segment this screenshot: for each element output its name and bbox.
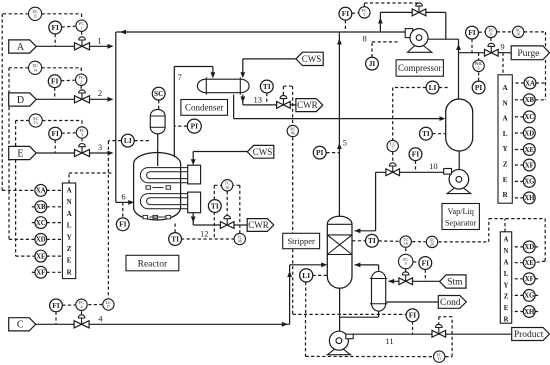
- wire dashed TC10 to CW valve: [226, 191, 228, 215]
- wire dashed LC7 to stream10 valve: [392, 152, 394, 164]
- wire dashed FI-FC feed A: [62, 25, 76, 28]
- svg-text:8: 8: [490, 33, 492, 37]
- wire dashed TC08 rail up: [239, 185, 241, 233]
- wire CWS supply to condenser: [243, 58, 296, 60]
- svg-text:E: E: [67, 257, 72, 265]
- svg-text:Purge: Purge: [517, 49, 539, 59]
- svg-text:XB: XB: [525, 97, 535, 104]
- svg-text:XH: XH: [524, 195, 535, 202]
- wire dashed bottom rail horizontal: [293, 313, 407, 315]
- arrow stream 4 corner: [282, 322, 288, 327]
- svg-text:FI: FI: [52, 301, 60, 310]
- instrument FI stream 6: [116, 218, 129, 231]
- wire dashed analyzer1R circle link: [512, 197, 523, 199]
- wire reboiler bottoms connection: [340, 316, 379, 318]
- valve feed A: [75, 37, 90, 50]
- wire dashed FC5 to bypass valve: [363, 3, 365, 7]
- controller PC06: [287, 125, 298, 136]
- svg-text:11: 11: [437, 357, 441, 361]
- svg-text:XD: XD: [524, 130, 534, 137]
- wire stream 4 horizontal into stripper: [290, 264, 325, 266]
- controller FC9 steam: [399, 254, 413, 268]
- svg-text:10: 10: [516, 33, 520, 37]
- instrument LI stripper: [300, 269, 313, 282]
- wire reactor CW return drop: [192, 213, 194, 225]
- wire dashed bottom rail drop: [305, 314, 307, 356]
- wire dashed FC1 to valve: [81, 32, 83, 37]
- svg-text:A: A: [67, 210, 72, 218]
- svg-text:6: 6: [478, 66, 480, 70]
- arrow stream 4 riser up: [287, 271, 292, 277]
- wire dashed XC10 to XA rail: [524, 31, 546, 33]
- svg-text:7: 7: [392, 147, 394, 151]
- reactor vessel: [134, 153, 181, 221]
- svg-text:A: A: [502, 84, 508, 92]
- instrument TI separator: [420, 127, 433, 140]
- wire top recycle line stream 8 header: [116, 31, 408, 33]
- node XH right1: [523, 192, 535, 204]
- controller FC2: [76, 74, 87, 85]
- svg-text:3: 3: [81, 133, 83, 137]
- svg-text:Vap/Liq: Vap/Liq: [448, 207, 474, 216]
- wire dashed FI tap feed C: [55, 312, 57, 325]
- wire dashed PHL to PI: [478, 72, 480, 81]
- condenser shell: [197, 79, 249, 93]
- label VapLiq Separator: [442, 204, 479, 230]
- node XC right1: [523, 111, 535, 123]
- wire dashed analyzer1R circle link: [512, 99, 523, 101]
- tag Cond: [438, 296, 466, 309]
- svg-text:R: R: [502, 191, 508, 199]
- svg-text:06: 06: [291, 132, 295, 136]
- svg-text:LI: LI: [429, 83, 437, 92]
- reactor baffle marks mid: [146, 186, 151, 189]
- wire dashed XB stub: [30, 206, 35, 208]
- arrow condenser CW outlet: [240, 97, 245, 103]
- svg-text:CWS: CWS: [302, 54, 322, 64]
- wire dashed reactor TI up: [174, 224, 176, 234]
- wire stripper bottoms to pump: [339, 288, 341, 331]
- stripper column: [327, 216, 352, 288]
- instrument FI feed D: [48, 75, 61, 88]
- tag Product: [512, 328, 550, 341]
- controller XC14 feed D: [28, 61, 41, 74]
- valve compressor bypass: [412, 3, 426, 16]
- feed tag C: [9, 318, 36, 331]
- wire dashed analyzer2 circle link: [512, 311, 524, 313]
- wire dashed separator LI stub: [439, 87, 450, 89]
- svg-text:Compressor: Compressor: [398, 63, 442, 73]
- wire dashed PI5 tap: [326, 152, 339, 154]
- instrument SC agitator: [152, 87, 165, 100]
- analyzer box right upper: [498, 75, 512, 203]
- instrument FI steam: [419, 257, 432, 270]
- instrument JI compressor: [366, 57, 379, 70]
- svg-text:18: 18: [404, 242, 408, 246]
- svg-text:FI: FI: [51, 23, 59, 32]
- arrow stream 5 mid: [337, 143, 342, 149]
- reboiler vessel: [372, 271, 386, 311]
- controller PHL separator: [473, 60, 484, 71]
- wire compressor bypass right leg: [445, 12, 447, 39]
- wire stream 4 riser to stripper: [289, 265, 291, 325]
- svg-text:Condenser: Condenser: [185, 103, 224, 113]
- arrow feed D into header: [108, 97, 114, 102]
- wire dashed analyzer2 stub right: [535, 246, 541, 248]
- wire dashed XC13 to FC3: [42, 120, 82, 122]
- analyzer letters right lower: [504, 237, 509, 324]
- svg-text:FI: FI: [119, 220, 127, 229]
- svg-text:L: L: [503, 130, 508, 138]
- svg-text:XF: XF: [525, 276, 534, 283]
- node XG right1: [523, 176, 535, 188]
- wire dashed FI recycle tap: [344, 20, 346, 32]
- wire dashed FC2 to valve: [80, 86, 82, 90]
- wire dashed FI purge tap: [471, 39, 473, 53]
- svg-text:TI: TI: [422, 129, 430, 138]
- svg-text:TI: TI: [211, 201, 219, 210]
- svg-text:A: A: [67, 187, 72, 195]
- svg-text:17: 17: [107, 305, 111, 309]
- svg-text:2: 2: [98, 88, 102, 98]
- node XD right1: [523, 127, 535, 139]
- svg-text:JI: JI: [369, 59, 376, 68]
- node XB left: [35, 201, 47, 213]
- svg-text:13: 13: [34, 121, 38, 125]
- svg-text:FI: FI: [422, 258, 430, 267]
- wire separator bottoms to pump: [458, 151, 460, 170]
- analyzer box left: [62, 183, 75, 279]
- svg-text:SC: SC: [154, 89, 163, 98]
- tag CWR condenser: [296, 99, 323, 112]
- tag Stm: [440, 275, 466, 288]
- wire dashed FC8-XC10: [497, 31, 513, 33]
- svg-text:C: C: [17, 320, 24, 331]
- wire dashed FI-FC purge: [479, 31, 486, 33]
- svg-text:D: D: [17, 95, 24, 106]
- svg-text:FI: FI: [412, 150, 420, 159]
- svg-text:XE: XE: [525, 147, 535, 154]
- wire dashed analyzer2 circle link: [512, 294, 524, 296]
- instrument LI reactor: [121, 134, 134, 147]
- wire dashed analyzer1R circle link: [512, 164, 523, 166]
- wire dashed LC11 to product valve: [445, 356, 452, 358]
- svg-text:12: 12: [200, 228, 209, 238]
- wire dashed XB stub right: [535, 99, 545, 101]
- svg-text:XA: XA: [36, 188, 46, 195]
- wire stream 7 drop into condenser: [212, 67, 214, 76]
- wire dashed reactor LI to rail: [108, 140, 121, 142]
- wire dashed reactor TI-TC08 line 12: [181, 238, 234, 240]
- feed tag E: [9, 146, 37, 159]
- instrument TI condenser: [260, 80, 273, 93]
- svg-text:L: L: [504, 271, 509, 278]
- wire stream 7 horizontal to condenser: [174, 66, 213, 68]
- svg-text:R: R: [504, 317, 509, 324]
- svg-text:Z: Z: [67, 245, 72, 253]
- svg-text:8: 8: [362, 33, 366, 43]
- reactor agitator motor capsule: [150, 109, 165, 134]
- svg-text:Y: Y: [502, 145, 508, 153]
- tag CWS condenser: [296, 52, 323, 65]
- compressor pump symbol: [405, 29, 413, 38]
- wire dashed stripper LI right: [312, 274, 327, 276]
- stripper dome line: [327, 223, 352, 225]
- node XB right1: [523, 94, 535, 106]
- wire dashed FI tap feed A: [54, 34, 56, 46]
- controller FC5 recycle: [359, 7, 370, 18]
- node XD left: [35, 234, 47, 246]
- feed tag A: [9, 40, 37, 53]
- wire feed E line: [36, 152, 109, 154]
- svg-text:XF: XF: [525, 162, 534, 169]
- valve product: [432, 324, 446, 337]
- wire dashed TI condenser tap: [266, 93, 268, 105]
- label Reactor: [126, 255, 179, 270]
- instrument FI recycle: [339, 7, 352, 20]
- controller XC20 stripper: [426, 236, 437, 247]
- wire dashed FI-FC feed C: [62, 304, 75, 306]
- reactor CW block upper: [188, 165, 201, 184]
- wire dashed LC17 rail to reactor LI: [107, 141, 109, 298]
- wire dashed XF stub: [30, 271, 35, 273]
- wire dashed analyzer rail XC15-XA: [2, 13, 28, 15]
- node XF left: [35, 266, 47, 278]
- separator dome line: [446, 106, 473, 108]
- wire dashed stripper TI row: [352, 240, 365, 242]
- svg-text:Product: Product: [514, 330, 544, 340]
- wire purge line stream 9: [459, 52, 512, 54]
- wire dashed XD-analyzer: [47, 238, 63, 240]
- label Compressor: [396, 60, 443, 76]
- svg-text:PI: PI: [316, 148, 324, 157]
- svg-text:FI: FI: [51, 129, 59, 138]
- arrow feed A into header: [108, 44, 114, 49]
- svg-text:11: 11: [385, 336, 393, 346]
- wire compressor bypass line: [380, 11, 445, 13]
- svg-text:5: 5: [343, 138, 347, 148]
- valve feed D: [75, 90, 90, 103]
- wire dashed FC8 to purge valve: [490, 38, 492, 43]
- svg-text:XD: XD: [524, 244, 534, 251]
- analyzer letters right upper: [502, 84, 508, 199]
- wire feed D line: [36, 98, 109, 100]
- arrow CWS into reactor coil block: [191, 159, 196, 165]
- node XC left: [35, 217, 47, 229]
- svg-text:9: 9: [500, 41, 504, 51]
- reactor CW block lower: [188, 192, 201, 213]
- arrow stream 10 into stripper: [354, 228, 360, 233]
- svg-text:Stripper: Stripper: [287, 236, 315, 246]
- wire stream 10 separator liquid to stripper: [376, 171, 445, 173]
- reactor agitator shaft: [157, 133, 159, 167]
- instrument FI feed E: [49, 127, 62, 140]
- wire dashed FC9 to steam valve: [405, 269, 407, 273]
- wire dashed XC14 to FC2: [42, 67, 81, 69]
- svg-text:A: A: [17, 42, 25, 53]
- node XE right1: [523, 144, 535, 156]
- svg-text:9: 9: [405, 262, 407, 266]
- svg-text:FI: FI: [468, 28, 476, 37]
- svg-text:Z: Z: [503, 161, 508, 169]
- wire condenser CW return to CWR: [243, 104, 296, 106]
- condenser tube sheets: [205, 77, 207, 94]
- svg-text:4: 4: [81, 305, 83, 309]
- wire dashed FI steam tap: [424, 270, 426, 282]
- svg-text:FI: FI: [51, 77, 59, 86]
- valve separator liquid: [386, 163, 400, 176]
- arrow CWS into condenser: [240, 72, 245, 78]
- reactor cooling coil lower: [140, 194, 187, 209]
- wire dashed XE2 feedback rail: [488, 219, 490, 242]
- svg-text:XG: XG: [524, 179, 535, 186]
- wire dashed TI separator tap: [432, 133, 445, 135]
- svg-text:LI: LI: [302, 271, 310, 280]
- svg-text:N: N: [67, 198, 72, 206]
- analyzer letters left: [67, 187, 73, 277]
- wire dashed XC stub: [30, 222, 35, 224]
- wire dashed FI11 tap: [412, 321, 414, 334]
- valve steam: [399, 272, 413, 285]
- instrument PI reactor: [187, 119, 201, 133]
- reboiler tube sheets: [370, 278, 387, 280]
- wire condenser process outlet to separator: [233, 95, 235, 119]
- node XF right2: [523, 273, 535, 285]
- arrow recycle into mixing header: [120, 30, 126, 35]
- node XD right2: [523, 241, 535, 253]
- wire reactor CWS supply: [193, 151, 247, 153]
- arrow bypass up: [378, 18, 383, 24]
- svg-text:TI: TI: [171, 234, 179, 243]
- wire dashed XA-analyzer: [47, 189, 63, 191]
- svg-text:Y: Y: [67, 233, 72, 241]
- node XF right1: [523, 159, 535, 171]
- svg-text:14: 14: [33, 68, 37, 72]
- tag CWR reactor: [247, 219, 274, 232]
- svg-text:08: 08: [238, 240, 242, 244]
- arrow feed E into header: [108, 151, 114, 156]
- wire dashed analyzer2 stub right: [535, 278, 541, 280]
- wire dashed separator LI to LC7 rail: [393, 87, 426, 89]
- wire dashed analyzer1R circle link: [512, 132, 523, 134]
- wire feed C line stream 4: [36, 323, 290, 325]
- wire condenser CW outlet drop: [242, 95, 244, 105]
- node XG right2: [523, 290, 535, 302]
- wire left feed header vertical: [115, 32, 117, 202]
- svg-text:1: 1: [97, 36, 101, 46]
- svg-text:E: E: [503, 176, 508, 184]
- controller FC8 purge: [485, 26, 496, 37]
- wire dashed analyzer1R sample: [502, 53, 504, 75]
- svg-text:FI: FI: [409, 311, 417, 320]
- wire dashed FI-FC feed E: [62, 132, 76, 134]
- wire dashed analyzer1R circle link: [512, 149, 523, 151]
- arrow stream 7 into condenser: [211, 72, 216, 78]
- wire reactor CW return to valve and CWR: [193, 224, 247, 226]
- arrow steam into reboiler: [388, 279, 394, 284]
- svg-text:A: A: [502, 115, 508, 123]
- svg-text:13: 13: [254, 94, 263, 104]
- wire compressor suction from separator riser: [458, 39, 460, 99]
- controller LC17: [103, 299, 114, 310]
- svg-text:CWR: CWR: [248, 220, 269, 230]
- wire dashed analyzer1R circle link: [512, 116, 523, 118]
- tag CWS reactor: [247, 145, 274, 158]
- wire compressor bypass left leg: [379, 12, 381, 32]
- node XE right2: [523, 257, 535, 269]
- feed tag D: [9, 93, 37, 106]
- svg-text:2: 2: [80, 80, 82, 84]
- svg-text:L: L: [67, 222, 72, 230]
- wire dashed FI tap feed D: [54, 88, 56, 100]
- arrow into separator: [439, 116, 445, 121]
- controller XC10 purge: [513, 26, 524, 37]
- controller FC3: [76, 127, 87, 138]
- wire dashed XC-analyzer: [47, 222, 63, 224]
- controller LC7 separator: [387, 140, 398, 151]
- wire stream 7 reactor overhead vertical: [173, 67, 175, 157]
- svg-text:4: 4: [98, 314, 103, 324]
- wire steam line to reboiler: [388, 280, 440, 282]
- svg-text:XF: XF: [36, 270, 45, 277]
- wire dashed FI tap feed E: [54, 140, 56, 153]
- svg-text:Z: Z: [504, 294, 509, 301]
- svg-text:XC: XC: [36, 220, 46, 227]
- svg-text:XH: XH: [524, 309, 535, 316]
- svg-text:Y: Y: [504, 282, 509, 289]
- wire dashed FI10 tap: [415, 161, 417, 173]
- reactor cooling coil upper: [140, 168, 187, 183]
- arrow stream 6 into reactor: [128, 200, 134, 205]
- wire dashed JI to compressor: [371, 42, 373, 57]
- wire dashed XA stub right: [536, 82, 546, 84]
- arrow stream 4 into stripper: [321, 262, 327, 267]
- wire product line stream 11: [352, 333, 512, 335]
- arrow stream 5 joining recycle: [337, 39, 342, 45]
- svg-text:TI: TI: [368, 236, 376, 245]
- node XA left: [35, 185, 47, 197]
- svg-text:E: E: [17, 148, 23, 159]
- svg-text:Separator: Separator: [445, 218, 477, 227]
- svg-text:7: 7: [178, 72, 182, 82]
- wire dashed analyzer2 stub right: [535, 294, 541, 296]
- controller TC08 reactor: [234, 233, 245, 244]
- instrument TI reactor: [169, 233, 182, 246]
- svg-text:15: 15: [33, 14, 37, 18]
- wire dashed FC4-LC17: [88, 304, 102, 306]
- wire dashed FI stream6 tap: [122, 202, 124, 217]
- svg-text:N: N: [504, 248, 509, 255]
- wire stream 6 into reactor: [116, 201, 132, 203]
- wire dashed analyzer1 sample line: [68, 173, 70, 183]
- svg-text:CWS: CWS: [253, 147, 273, 157]
- instrument TI reactor CW: [208, 200, 221, 213]
- svg-text:XC: XC: [524, 114, 534, 121]
- svg-text:Reactor: Reactor: [138, 259, 168, 269]
- controller FC4: [76, 299, 87, 310]
- controller LC11 product: [434, 351, 445, 362]
- controller TC18 stripper: [400, 236, 411, 247]
- controller XC15 feed A: [28, 7, 41, 20]
- svg-text:A: A: [504, 260, 509, 267]
- wire dashed stripper LI down: [305, 282, 307, 315]
- wire dashed analyzer rail XC13-XE: [16, 120, 30, 122]
- svg-text:XA: XA: [525, 80, 535, 87]
- svg-text:6: 6: [121, 191, 125, 201]
- wire dashed analyzer2 sample: [504, 219, 506, 232]
- svg-text:FI: FI: [342, 9, 350, 18]
- arrow separator vapor up: [456, 44, 461, 50]
